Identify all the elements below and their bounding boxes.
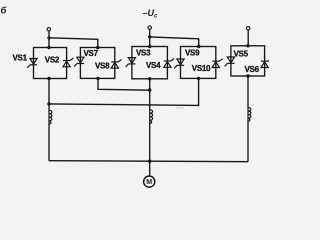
svg-text:VS3: VS3	[136, 49, 151, 58]
inductor L2	[150, 110, 153, 124]
thyristor VS9	[174, 59, 184, 68]
box4 loop VS9/VS10	[181, 47, 216, 79]
wire L2 down	[149, 123, 151, 161]
thyristor VS3	[126, 58, 136, 67]
node box4 top	[197, 45, 200, 48]
wire to motor	[149, 161, 151, 176]
thyristor VS2	[63, 58, 73, 67]
node box3 bottom	[148, 77, 151, 80]
svg-text:VS2: VS2	[45, 56, 60, 65]
inductor L3	[248, 107, 251, 121]
node middle bus junction	[148, 88, 151, 91]
thyristor VS5	[225, 57, 235, 66]
wire terminal B down	[149, 29, 151, 46]
wire terminal C down	[247, 30, 249, 46]
inductor L1	[49, 110, 52, 124]
svg-text:VS4: VS4	[146, 61, 161, 70]
svg-text:VS7: VS7	[84, 49, 99, 58]
svg-text:VS9: VS9	[185, 48, 200, 57]
svg-text:VS8: VS8	[95, 62, 110, 71]
motor M	[144, 176, 155, 187]
node box3 top	[148, 45, 151, 48]
wire bus box1-box4	[49, 78, 199, 105]
wire box1 stub down	[48, 79, 50, 111]
terminal B	[148, 26, 152, 30]
scan smudge	[176, 107, 184, 108]
thyristor VS7	[74, 57, 84, 66]
wire bus box2-box3	[98, 78, 150, 90]
terminal A	[47, 28, 51, 32]
thyristor VS4	[164, 59, 174, 68]
box2 loop VS7/VS8	[80, 48, 114, 79]
node box1 top	[47, 46, 50, 49]
wire box3 stub down	[149, 79, 151, 110]
node box2 bottom	[96, 77, 99, 80]
box3 loop VS3/VS4	[132, 47, 168, 79]
node box2 top	[96, 46, 99, 49]
node A junction	[47, 36, 50, 39]
svg-text:VS6: VS6	[245, 65, 260, 74]
node B junction	[148, 35, 151, 38]
svg-text:VS5: VS5	[234, 50, 249, 59]
svg-text:VS10: VS10	[192, 64, 211, 73]
thyristor VS1	[27, 59, 37, 68]
wire L3 down	[247, 121, 249, 162]
wire L1 down	[48, 124, 50, 161]
svg-text:VS1: VS1	[13, 53, 28, 62]
box1 loop VS1/VS2	[34, 48, 67, 79]
thyristor VS10	[212, 59, 222, 68]
node bottom center	[148, 160, 151, 163]
thyristor VS6	[261, 59, 271, 68]
node box5 top	[246, 44, 249, 47]
node box4 bottom	[197, 77, 200, 80]
svg-text:M: M	[146, 179, 152, 186]
node left bus junction	[47, 102, 50, 105]
thyristor VS8	[111, 60, 121, 69]
node box5 bottom	[246, 74, 249, 77]
wire bottom bus	[49, 161, 248, 162]
box5 loop VS5/VS6	[231, 46, 265, 76]
wire bus B to box4	[150, 37, 199, 47]
wire bus A to box2	[49, 38, 98, 48]
wire terminal A down	[48, 31, 50, 48]
wire box5 stub down	[247, 76, 249, 108]
node box1 bottom	[47, 77, 50, 80]
terminal C	[246, 27, 250, 31]
